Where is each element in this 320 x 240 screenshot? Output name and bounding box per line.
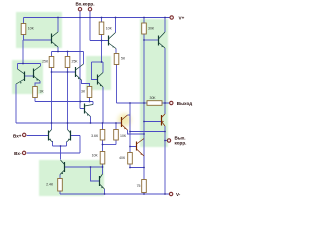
wire comp pin 2 column bbox=[90, 11, 109, 40]
wire column x51 down to diff pair bbox=[51, 72, 53, 130]
resistor 25K right bbox=[65, 57, 70, 68]
wire Q3 base from R1 node bbox=[24, 39, 52, 41]
green highlight: right output stage strip bbox=[140, 19, 168, 147]
svg-text:Выход: Выход bbox=[177, 101, 192, 106]
resistor 10K top-left bbox=[21, 24, 26, 35]
wire R75 stubs bbox=[143, 168, 145, 195]
svg-text:Вх+: Вх+ bbox=[13, 133, 22, 138]
wire 40K top stub and base red Q2 bbox=[130, 147, 137, 153]
svg-text:3.6К: 3.6К bbox=[91, 134, 99, 138]
svg-text:10К: 10К bbox=[120, 134, 127, 138]
wire red Q1 collector riser bbox=[128, 114, 131, 116]
wire out PNP base seg bbox=[144, 121, 162, 123]
resistor 40K bbox=[128, 153, 133, 165]
svg-text:2.4К: 2.4К bbox=[46, 183, 54, 187]
svg-text:30К: 30К bbox=[150, 96, 157, 100]
terminal rings bbox=[22, 8, 173, 196]
wire long horizontal node y=101 bbox=[35, 101, 93, 103]
wire red Q2 emitter bbox=[143, 156, 145, 168]
terminal V- bbox=[169, 192, 172, 195]
transistor Q10 bbox=[109, 33, 117, 49]
wire red Q1 emitter link bbox=[128, 130, 145, 134]
wire comp pin 1 column bbox=[80, 11, 85, 108]
terminal V+ bbox=[170, 16, 173, 19]
wire x129 column bbox=[129, 103, 131, 147]
wire Q7 base drop bbox=[91, 167, 100, 181]
wire Q8 collector to y101 bbox=[92, 102, 94, 105]
transistor Q2 right mirror bbox=[34, 66, 41, 81]
yellow halo around highlighted transistor bbox=[118, 114, 131, 127]
resistor 2.4K bbox=[58, 179, 63, 192]
wire 3K#1 bottom to long node bbox=[34, 98, 36, 102]
transistor Q6 bottom left bbox=[60, 160, 65, 175]
svg-text:25К: 25К bbox=[42, 60, 49, 64]
wire 10K#4 stubs bbox=[115, 123, 117, 145]
terminal output comp bbox=[167, 139, 170, 142]
wire Q3 emitter to 25K tops bbox=[57, 47, 59, 52]
wire mirror Q2 emitter to 3K resistor bbox=[35, 81, 40, 87]
transistor Q1 left mirror bbox=[16, 69, 25, 84]
svg-text:10К: 10К bbox=[106, 26, 113, 30]
transistor Q7 bottom middle bbox=[100, 174, 105, 189]
resistor 3K left bbox=[33, 87, 38, 98]
transistor output PNP (orange) bbox=[162, 114, 166, 126]
wire column x67 down to diff pair bbox=[67, 72, 69, 130]
wire 10K R1 column top-left bbox=[23, 18, 25, 41]
terminal Vin- bbox=[22, 151, 25, 154]
transistor Q5 top right bbox=[159, 32, 166, 48]
wire x143 long column bbox=[143, 40, 145, 168]
wire Q5 base bbox=[144, 39, 159, 41]
resistors bbox=[21, 22, 162, 193]
transistor Q3 input top-left bbox=[52, 32, 59, 47]
svg-text:40К: 40К bbox=[119, 156, 126, 160]
wire Q4 collector bar node bbox=[92, 61, 104, 63]
wire output line bbox=[117, 102, 170, 104]
resistor 10K lower bbox=[100, 152, 105, 165]
wire V- rail bbox=[60, 193, 169, 195]
wire y71 bar to Q9 base bbox=[52, 71, 76, 73]
svg-text:30К: 30К bbox=[148, 26, 155, 30]
svg-text:Вых.: Вых. bbox=[175, 135, 186, 140]
terminal comp pin 1 bbox=[78, 8, 81, 11]
resistor 30K output (horizontal) bbox=[147, 101, 162, 106]
wire y131 link bbox=[130, 131, 165, 133]
wire Q5 emitter down bbox=[164, 48, 166, 114]
red transistor Q red 2 bbox=[137, 139, 145, 157]
svg-text:75: 75 bbox=[137, 184, 141, 188]
transistor Q4 middle mirror bbox=[98, 73, 104, 88]
wire Q4 base loop bbox=[92, 62, 98, 80]
wire comp-out terminal stub bbox=[165, 140, 167, 142]
resistor 10K second top bbox=[99, 22, 104, 35]
resistor 5K bbox=[114, 54, 119, 65]
wire Q7 emitter to rail bbox=[104, 189, 106, 194]
wire Q10 collector to rail bbox=[115, 18, 117, 33]
resistor 3.6K bbox=[100, 130, 105, 141]
wire Q7 collector bbox=[102, 167, 104, 174]
wire y143.5 tie bbox=[103, 144, 117, 146]
wire Q10 emitter into 5K bbox=[115, 49, 117, 54]
wire Q8 emitter to y122 bbox=[90, 117, 92, 124]
wire Q5 collector to rail bbox=[164, 18, 166, 33]
wire mirror Q1 emitter down-left column bbox=[15, 84, 17, 123]
terminal output bbox=[170, 101, 173, 104]
wire 25K top bar bbox=[52, 52, 84, 57]
svg-text:Вх.корр.: Вх.корр. bbox=[75, 2, 94, 7]
svg-text:корр.: корр. bbox=[175, 141, 187, 146]
wire 25K bottoms to y71 bar bbox=[52, 68, 68, 73]
wire V+ terminal lead bbox=[167, 17, 169, 19]
svg-text:10К: 10К bbox=[92, 153, 99, 157]
wire diff tail bar bbox=[53, 141, 67, 146]
resistor 10K mid bbox=[114, 130, 119, 141]
wire Q3 collector to rail bbox=[57, 18, 59, 33]
green highlight: middle current mirror block bbox=[86, 56, 111, 90]
wire Q4 emitter long column bbox=[102, 87, 104, 123]
wire 3K#2 bottom bbox=[89, 98, 91, 102]
wire y166 node bbox=[65, 166, 103, 168]
wire Q4 collector stub bbox=[102, 62, 104, 73]
resistor 75 bbox=[142, 180, 147, 193]
transistor Q9 middle bbox=[76, 64, 84, 80]
wire Q9 emitter to 3K#2 bbox=[82, 80, 90, 87]
wire Q6 collector riser to tail bbox=[60, 146, 62, 160]
svg-text:V-: V- bbox=[176, 192, 181, 197]
wire Vin- lead bbox=[27, 136, 80, 154]
red transistor with yellow halo (Q red 1) bbox=[122, 114, 166, 156]
wire 5K bottom column bbox=[116, 65, 118, 104]
wire 40K bottom bbox=[130, 164, 144, 168]
wire 3.6K stubs bbox=[102, 123, 104, 145]
resistor 30K top-right bbox=[142, 23, 147, 34]
wire 10K R2 column bbox=[101, 18, 103, 63]
terminal Vin+ bbox=[23, 133, 26, 136]
green highlight: input stage top-left block bbox=[16, 12, 62, 48]
wire long y122 node bbox=[16, 122, 122, 124]
wire out PNP collector down to rail V- bbox=[164, 126, 166, 194]
terminal comp pin 2 bbox=[88, 8, 91, 11]
wire Vin+ lead bbox=[27, 135, 49, 137]
wire V+ top rail bbox=[24, 17, 170, 19]
wire 30K top-right column bbox=[143, 18, 145, 41]
wire 2.4K stubs bbox=[59, 175, 61, 195]
transistor diff pair left bbox=[49, 130, 53, 143]
wire Q9 collector riser bbox=[83, 52, 85, 65]
resistor 25K left bbox=[49, 57, 54, 68]
wire down to 10K#3 bbox=[102, 145, 104, 168]
resistor 3K middle bbox=[87, 87, 92, 98]
green highlight: left current mirror block bbox=[12, 60, 43, 94]
svg-text:V+: V+ bbox=[179, 15, 185, 20]
svg-text:Вх-: Вх- bbox=[14, 151, 22, 156]
wire mirror base tie bbox=[25, 75, 34, 77]
svg-text:25К: 25К bbox=[72, 60, 79, 64]
transistor diff pair right bbox=[67, 130, 71, 143]
green highlight: bottom middle block bbox=[39, 160, 104, 196]
transistor Q8 bbox=[85, 104, 94, 117]
wire R1 node down to left mirror bbox=[22, 40, 24, 64]
svg-text:10К: 10К bbox=[28, 27, 35, 31]
transistors (dark symbols) bbox=[16, 32, 165, 189]
wire left mirror top bar bbox=[18, 64, 41, 70]
